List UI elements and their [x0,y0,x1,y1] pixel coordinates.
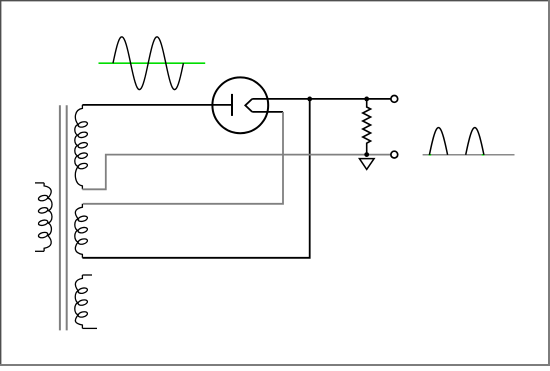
ground symbol [359,159,374,170]
transformer core [60,105,67,330]
wire: filament bottom lead [252,111,283,113]
wire: filament return (gray) down to filament winding [83,112,283,204]
vacuum tube V1 envelope [212,77,268,133]
input sine waveform [113,37,183,90]
tube plate (anode) [231,94,233,116]
output waveform pulse 1 [429,128,447,155]
tube filament (cathode chevron) [245,99,252,112]
transformer secondary winding (middle, filament) [75,204,88,258]
input sine waveform baseline (green) [99,62,206,64]
wire: ground return rail (gray, bottom) [82,155,391,190]
transformer secondary winding (bottom, heater) [75,275,97,328]
junction dot at cathode rail / filament return [307,97,312,102]
wire: plate wire from secondary top to tube plate [82,104,231,106]
output terminal (bottom) [391,151,398,158]
junction dot at resistor top [364,97,369,102]
wire: filament winding bottom to top rail (black) [82,99,309,258]
junction dot at resistor bottom [364,152,369,157]
output waveform green tick right [482,154,485,156]
output waveform baseline (gray) [423,154,515,156]
output terminal (top) [391,96,398,103]
wire: cathode output rail (top) [252,98,391,100]
output waveform pulse 2 [466,128,484,155]
transformer primary winding T1 [35,183,52,251]
resistor R1 (load) [363,99,371,155]
transformer secondary winding (top, HV) [75,105,88,189]
output waveform green tick left [429,154,432,156]
